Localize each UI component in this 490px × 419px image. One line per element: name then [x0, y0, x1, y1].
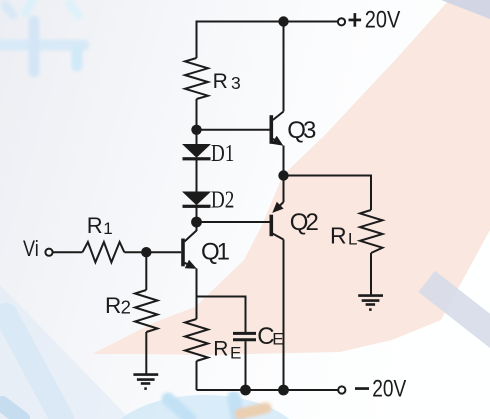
- ground below RL: [358, 296, 383, 310]
- svg-text:20V: 20V: [372, 376, 406, 403]
- watermark bottom-left wash: [0, 285, 130, 419]
- resistor R2: [135, 290, 158, 332]
- wire node D to RL: [284, 176, 372, 211]
- label CE: [257, 323, 283, 350]
- wire Q3 emitter to node D: [283, 146, 285, 176]
- wire node B to Q2 base: [197, 221, 270, 223]
- wire Q1 emitter down: [196, 269, 198, 320]
- label RL: [330, 222, 357, 248]
- watermark bottom-left blue bands: [6, 315, 62, 419]
- svg-text:E: E: [272, 330, 283, 349]
- resistor R1: [83, 242, 125, 262]
- label +20V: [349, 7, 401, 34]
- svg-text:3: 3: [231, 73, 241, 93]
- svg-text:R: R: [87, 213, 103, 238]
- svg-text:Q1: Q1: [201, 239, 230, 266]
- wire Q3 collector to top rail: [283, 22, 285, 112]
- input terminal circle: [45, 249, 52, 256]
- watermark peach wedge: [92, 0, 490, 355]
- bottom supply rail wire: [197, 389, 338, 391]
- label R2: [105, 293, 131, 318]
- svg-text:20V: 20V: [365, 7, 401, 34]
- transistor Q2: [271, 202, 283, 240]
- capacitor CE: [233, 333, 256, 339]
- label R1: [87, 213, 113, 238]
- svg-text:R: R: [105, 293, 121, 318]
- svg-text:L: L: [348, 230, 357, 249]
- -20V terminal circle: [338, 386, 345, 393]
- node A junction dot: [191, 125, 201, 135]
- svg-text:Q2: Q2: [290, 209, 319, 236]
- watermark bottom-center cyan swoosh: [105, 395, 305, 419]
- ground below R2: [133, 375, 158, 389]
- bottom rail junction dot Q2: [278, 385, 289, 396]
- watermark logo stroke top-left: [0, 1, 84, 72]
- wire input terminal to R1: [53, 251, 83, 253]
- wire RL to ground: [370, 253, 372, 295]
- node B junction dot: [191, 217, 202, 228]
- svg-text:D2: D2: [211, 187, 234, 214]
- wire R2 to ground: [145, 332, 147, 374]
- wire CE to bottom rail: [245, 341, 247, 390]
- watermark blue band top-right corner: [441, 0, 490, 19]
- svg-text:E: E: [230, 344, 241, 363]
- svg-text:R: R: [213, 338, 228, 361]
- wire node D to Q2 emitter: [283, 176, 285, 203]
- bottom rail junction dot CE: [240, 385, 251, 396]
- wire Q1 collector to node B: [196, 222, 198, 231]
- diode D1: [182, 144, 211, 160]
- wire node C to R2: [145, 252, 147, 290]
- transistor Q3: [271, 112, 283, 146]
- diode D2: [182, 192, 211, 208]
- watermark blue band bottom-right: [418, 271, 490, 351]
- svg-text:Q3: Q3: [287, 117, 316, 144]
- wire D1 to D2: [196, 160, 198, 192]
- svg-text:R: R: [330, 222, 347, 248]
- wire RE top to CE top: [197, 297, 246, 333]
- wire R1 to node C: [124, 251, 146, 253]
- +20V terminal circle: [338, 18, 345, 25]
- svg-text:2: 2: [121, 296, 131, 317]
- svg-text:Vi: Vi: [23, 237, 39, 261]
- label -20V: [355, 376, 406, 403]
- wire R3 to D1: [196, 99, 198, 144]
- transistor Q1: [183, 231, 197, 269]
- node D junction dot: [278, 170, 288, 180]
- wire RE to bottom rail: [196, 361, 198, 390]
- top supply rail wire: [197, 22, 338, 59]
- resistor RE: [185, 319, 208, 361]
- wire node C to Q1 base: [146, 251, 181, 253]
- top rail junction dot: [278, 16, 288, 26]
- wire Q2 collector to bottom rail: [283, 240, 285, 391]
- wire node A to Q3 base: [197, 129, 270, 131]
- node C junction dot: [141, 247, 151, 257]
- svg-text:1: 1: [103, 219, 112, 238]
- wire D2 to node B: [196, 208, 198, 232]
- resistor RL: [360, 210, 383, 253]
- svg-text:D1: D1: [211, 140, 234, 167]
- watermark bottom-center strokes: [168, 398, 266, 419]
- label R3: [213, 70, 241, 93]
- label RE: [213, 338, 241, 363]
- circuit ink: [53, 22, 383, 391]
- resistor R3: [185, 58, 208, 99]
- svg-text:R: R: [213, 70, 228, 93]
